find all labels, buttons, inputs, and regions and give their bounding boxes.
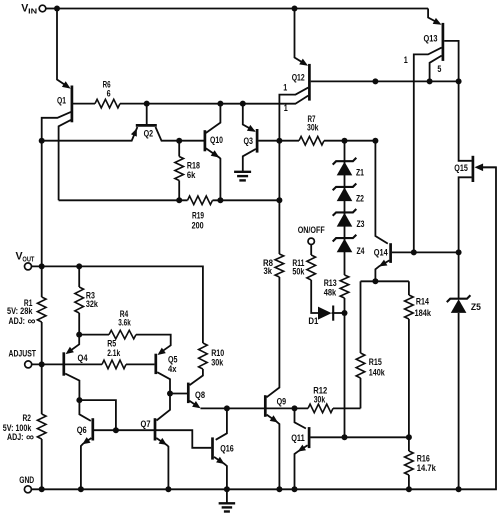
svg-text:Z4: Z4	[357, 246, 366, 256]
wire zener stack	[344, 141, 346, 275]
wire R15 column top	[360, 281, 362, 353]
wire Q13 collector stub	[444, 41, 458, 82]
svg-text:Q11: Q11	[291, 433, 305, 443]
wire Z5 column top	[458, 252, 460, 298]
wire R7 to Q14 column	[324, 140, 375, 142]
resistor R3	[75, 266, 99, 334]
svg-text:30k: 30k	[307, 123, 319, 133]
svg-text:2.1k: 2.1k	[107, 348, 121, 358]
transistor Q2 emitter arrow	[131, 128, 137, 136]
transistor Q10 label	[210, 135, 223, 145]
node Q6 emitter GND	[78, 486, 84, 492]
wire Q4 collector	[65, 374, 79, 401]
resistor R11	[292, 255, 315, 280]
svg-text:Q13: Q13	[424, 34, 438, 44]
pin label 1 Q13	[404, 55, 408, 65]
wire mirror rail	[59, 199, 188, 201]
wire ADJUST rail	[32, 363, 102, 365]
wire Z5 column bottom	[458, 313, 460, 489]
resistor R12	[308, 385, 333, 412]
node Q13c1 to Q14 base	[411, 249, 417, 255]
transistor Q12 emitter arrow	[299, 59, 308, 66]
wire GND rail and Q15 gate return	[31, 167, 496, 489]
svg-text:30k: 30k	[314, 395, 326, 405]
node R18 top	[176, 138, 182, 144]
wire Q9 emitter	[267, 415, 280, 490]
wire Q8 base	[170, 393, 187, 395]
svg-text:1: 1	[283, 82, 287, 92]
svg-text:R5: R5	[107, 338, 116, 348]
transistor Q15 label	[454, 163, 468, 173]
svg-text:Z2: Z2	[356, 194, 364, 204]
zener Z4	[333, 235, 365, 256]
svg-text:ON/OFF: ON/OFF	[298, 225, 325, 235]
svg-text:R19: R19	[192, 211, 204, 221]
svg-text:Q10: Q10	[210, 135, 223, 145]
wire Q5 collector	[157, 372, 170, 393]
node Q3 emitter	[240, 101, 246, 107]
zener Z3	[333, 209, 365, 229]
transistor Q6 emitter arrow	[82, 437, 90, 444]
svg-text:IN: IN	[28, 8, 37, 15]
wire Q6 emitter	[81, 438, 92, 489]
resistor R4	[109, 309, 136, 339]
wire left column mid	[41, 322, 43, 414]
node Q14 collector top	[372, 138, 378, 144]
transistor Q15 channel bar	[472, 156, 475, 182]
resistor R18	[175, 141, 200, 201]
wire Q7 emitter	[156, 438, 168, 489]
transistor Q9 emitter arrow	[270, 415, 278, 422]
transistor Q6 bar	[91, 418, 94, 440]
wire Q16 collector	[216, 408, 227, 439]
wire Q11 emitter	[295, 445, 308, 489]
wire mirror rail right	[213, 199, 280, 201]
transistor Q2 label	[144, 128, 154, 138]
wire Q13 collector 1	[414, 48, 442, 253]
transistor Q7 label	[141, 419, 151, 429]
input terminal VIN	[21, 2, 46, 15]
zener Z5	[447, 295, 481, 313]
svg-text:ADJUST: ADJUST	[9, 349, 37, 359]
wire Q1 collector	[73, 103, 95, 105]
svg-text:1: 1	[284, 103, 288, 113]
node R8 top junction	[276, 197, 282, 203]
transistor Q11 bar	[308, 427, 311, 448]
zener Z1	[333, 158, 364, 178]
svg-text:Q16: Q16	[220, 444, 234, 454]
svg-text:Z3: Z3	[357, 219, 365, 229]
node Q10 collector	[217, 101, 223, 107]
transistor Q9 bar	[264, 395, 267, 417]
transistor Q3 bar	[256, 129, 259, 153]
wire	[46, 8, 57, 10]
wire Q10 collector	[206, 104, 221, 133]
svg-text:ADJ:: ADJ:	[9, 316, 26, 326]
node Q15 source to Q14 base	[456, 249, 462, 255]
node VOUT left column	[39, 263, 45, 269]
transistor Q1 emitter arrow	[62, 81, 71, 88]
svg-text:32k: 32k	[86, 299, 99, 309]
wire Q7 collector	[157, 394, 171, 421]
svg-text:6k: 6k	[187, 170, 196, 180]
svg-text:5: 5	[437, 64, 441, 74]
zener Z2	[333, 184, 364, 204]
wire ON/OFF to R11	[310, 245, 312, 255]
transistor Q13 label	[424, 34, 438, 44]
svg-text:48k: 48k	[324, 287, 337, 297]
svg-text:6: 6	[107, 89, 111, 99]
transistor Q5 label	[168, 355, 178, 375]
wire Q6 base link	[79, 400, 116, 430]
wire R5 to Q5 base	[126, 363, 154, 365]
transistor Q13 bar	[442, 23, 445, 61]
transistor Q7 emitter arrow	[159, 438, 167, 445]
svg-text:R15: R15	[369, 357, 382, 367]
resistor R6	[95, 79, 120, 108]
wire Q14 emitter	[375, 260, 389, 281]
node Q16 collector junction	[224, 405, 230, 411]
node R3-R4-Q4	[76, 332, 82, 338]
resistor R13	[324, 275, 349, 298]
transistor Q11 label	[291, 433, 305, 443]
pin label 5 Q13	[437, 64, 441, 74]
transistor Q11 emitter arrow	[298, 445, 306, 452]
resistor R2	[3, 413, 46, 444]
wire Q2 collector to Q10 base	[156, 127, 205, 141]
wire Q1 emitter 2	[59, 120, 71, 200]
wire D1 node to Q11 collector	[344, 313, 346, 437]
svg-text:Q4: Q4	[78, 353, 89, 363]
svg-text:ADJ:: ADJ:	[7, 432, 24, 442]
svg-text:Q14: Q14	[374, 247, 389, 257]
ground Q16	[219, 503, 236, 511]
node Q4-Q6 junction	[76, 397, 82, 403]
transistor Q6 label	[77, 425, 87, 435]
node Q5-Q7-Q8 junction	[167, 391, 173, 397]
svg-text:Q9: Q9	[277, 396, 287, 406]
wire R14 to Q11 collector	[408, 319, 410, 437]
svg-text:∞: ∞	[26, 432, 34, 444]
wire Q15 drain	[459, 81, 472, 160]
node R14-R16 junction	[406, 434, 412, 440]
wire Q11 base	[295, 408, 306, 428]
wire Q2 base	[146, 104, 148, 125]
svg-text:14.7k: 14.7k	[417, 463, 437, 473]
node Q16 emitter GND	[224, 486, 230, 492]
transistor Q12 bar	[308, 64, 311, 101]
transistor Q4 label	[78, 353, 89, 363]
svg-text:Q12: Q12	[292, 73, 305, 83]
wire R14 column top	[408, 281, 410, 295]
wire R15 column bottom	[360, 378, 362, 408]
node Z5 GND	[456, 486, 462, 492]
node Q6-Q7 base junction	[113, 427, 119, 433]
resistor R5	[102, 338, 126, 368]
svg-text:D1: D1	[308, 316, 318, 326]
svg-text:1: 1	[404, 55, 408, 65]
adjust terminal	[9, 349, 37, 368]
resistor R7	[299, 114, 324, 145]
transistor Q3 emitter arrow	[247, 125, 256, 132]
wire Q6-Q7 base line	[94, 430, 211, 448]
transistor Q12 label	[292, 73, 305, 83]
wire R4 line	[79, 334, 109, 336]
svg-text:Q15: Q15	[454, 163, 468, 173]
wire Q10 emitter	[206, 148, 221, 200]
wire Q3 emitter	[243, 104, 255, 131]
wire R10 to Q8 collector	[190, 369, 203, 385]
wire R11 to D1	[311, 280, 318, 313]
wire left column bottom	[41, 439, 43, 489]
transistor Q3 label	[244, 136, 254, 146]
wire Q16 emitter	[214, 457, 227, 503]
svg-text:184k: 184k	[415, 308, 432, 318]
wire Q8 emitter	[189, 401, 198, 407]
resistor R15	[356, 353, 385, 378]
svg-text:R2: R2	[23, 413, 32, 423]
svg-text:Q3: Q3	[244, 136, 254, 146]
resistor R19	[188, 196, 213, 231]
wire Q15 gate	[483, 166, 496, 168]
pin label 1 upper	[283, 82, 287, 92]
svg-text:Z1: Z1	[356, 167, 364, 177]
node Q13 collector5 junction	[427, 78, 433, 84]
svg-text:3k: 3k	[264, 266, 273, 276]
node Q2 base	[144, 101, 150, 107]
ground terminal	[19, 475, 34, 493]
wire R12 to R15	[333, 407, 361, 409]
svg-text:GND: GND	[19, 475, 34, 485]
transistor Q5 emitter arrow	[158, 348, 166, 355]
transistor Q1 bar	[71, 86, 74, 123]
svg-text:Q1: Q1	[57, 95, 66, 105]
transistor Q9 label	[277, 396, 287, 406]
node ADJUST left column	[39, 361, 45, 367]
svg-text:∞: ∞	[28, 316, 36, 328]
svg-text:R16: R16	[417, 453, 430, 463]
ground Q3	[234, 172, 251, 181]
node VIN-Q1	[54, 6, 60, 12]
node Q7 emitter GND	[165, 486, 171, 492]
node R3 top	[76, 263, 82, 269]
node Q12/Q3 base junction	[276, 138, 282, 144]
wire Q6 collector	[79, 400, 90, 421]
svg-text:Q2: Q2	[144, 128, 154, 138]
transistor Q14 bar	[389, 243, 392, 263]
node Q11-D1 junction	[342, 434, 348, 440]
svg-text:3.6k: 3.6k	[118, 317, 131, 327]
transistor Q10 bar	[204, 130, 207, 151]
transistor Q10 emitter arrow	[211, 150, 220, 157]
wire Q12 base rail	[311, 80, 459, 82]
node VIN-Q12	[292, 6, 298, 12]
terminal ON/OFF	[308, 238, 314, 244]
transistor Q5 bar	[154, 354, 157, 374]
svg-text:30k: 30k	[211, 357, 224, 367]
transistor Q8 label	[195, 390, 205, 400]
svg-text:Q8: Q8	[195, 390, 205, 400]
transistor Q7 bar	[154, 418, 157, 440]
wire Q15 source	[459, 177, 472, 252]
node Q1/Q2 junction	[39, 138, 45, 144]
transistor Q8 emitter arrow	[192, 401, 200, 408]
wire Q1 emitter 1	[42, 112, 71, 141]
wire Q8 emitter to R12	[201, 407, 309, 409]
wire R15-R14 top link	[361, 280, 409, 282]
node GND left column	[39, 486, 45, 492]
svg-text:Z5: Z5	[471, 302, 481, 312]
svg-text:Q5: Q5	[168, 355, 178, 365]
wire Q2 emitter	[42, 127, 138, 141]
resistor R8	[263, 254, 284, 277]
svg-text:Q6: Q6	[77, 425, 87, 435]
label ON/OFF	[298, 225, 325, 235]
wire Q14 collector	[375, 141, 387, 244]
wire R13 to D1 node	[344, 298, 346, 313]
transistor Q2 bar	[136, 124, 157, 127]
transistor Q4 emitter arrow	[66, 347, 74, 354]
node R18 bottom	[176, 197, 182, 203]
node zener stack top	[342, 138, 348, 144]
wire VIN rail	[57, 8, 428, 10]
transistor Q16 emitter arrow	[216, 457, 224, 464]
wire Q11 collector	[310, 436, 409, 438]
node Q13 collector rail end	[456, 78, 462, 84]
node Q11 base junction	[292, 405, 298, 411]
wire Q12 emitter feed	[295, 9, 306, 65]
wire Q13 collector 5	[430, 56, 442, 82]
transistor Q1 label	[57, 95, 66, 105]
wire Q1 emitter feed	[57, 9, 68, 87]
wire R8 to Q9 collector	[267, 277, 280, 397]
resistor R14	[405, 295, 432, 319]
svg-text:140k: 140k	[369, 368, 386, 378]
transistor Q13 emitter arrow	[433, 18, 442, 25]
wire Q3 collector	[243, 149, 256, 172]
wire Q14 base line	[392, 251, 459, 253]
wire VOUT rail	[32, 266, 203, 343]
wire Q3 base	[259, 140, 300, 142]
transistor Q16 label	[220, 444, 234, 454]
wire R4 to Q5 emitter	[136, 335, 171, 354]
node Q10 emitter	[217, 197, 223, 203]
node Q12-Q14 junction	[372, 78, 378, 84]
transistor Q16 bar	[211, 437, 214, 459]
output terminal VOUT	[16, 250, 35, 270]
svg-text:Q7: Q7	[141, 419, 151, 429]
transistor Q8 bar	[187, 383, 190, 404]
svg-text:OUT: OUT	[22, 256, 35, 263]
wire left column	[41, 141, 43, 297]
node R16 GND	[406, 486, 412, 492]
resistor R16	[405, 437, 437, 489]
resistor R10	[199, 343, 225, 369]
svg-text:200: 200	[192, 221, 204, 231]
resistor R1	[7, 297, 46, 328]
svg-text:R14: R14	[416, 297, 430, 307]
transistor Q15 gate arrow	[475, 164, 484, 172]
transistor Q4 bar	[62, 352, 65, 375]
node Q14 emitter junction	[372, 278, 378, 284]
node Q11 emitter GND	[292, 486, 298, 492]
diode D1	[308, 306, 344, 326]
wire Q12 collector 1	[279, 88, 308, 254]
svg-text:4x: 4x	[168, 364, 177, 374]
transistor Q14 label	[374, 247, 389, 257]
wire rail to Q12	[120, 96, 308, 104]
transistor Q14 emitter arrow	[379, 260, 388, 267]
wire Q13 emitter feed	[428, 9, 439, 24]
node Q9 emitter GND	[276, 486, 282, 492]
wire Q4 emitter	[67, 335, 79, 353]
pin label 1 lower	[284, 103, 288, 113]
svg-text:50k: 50k	[292, 267, 305, 277]
node D1 cathode junction	[342, 310, 348, 316]
